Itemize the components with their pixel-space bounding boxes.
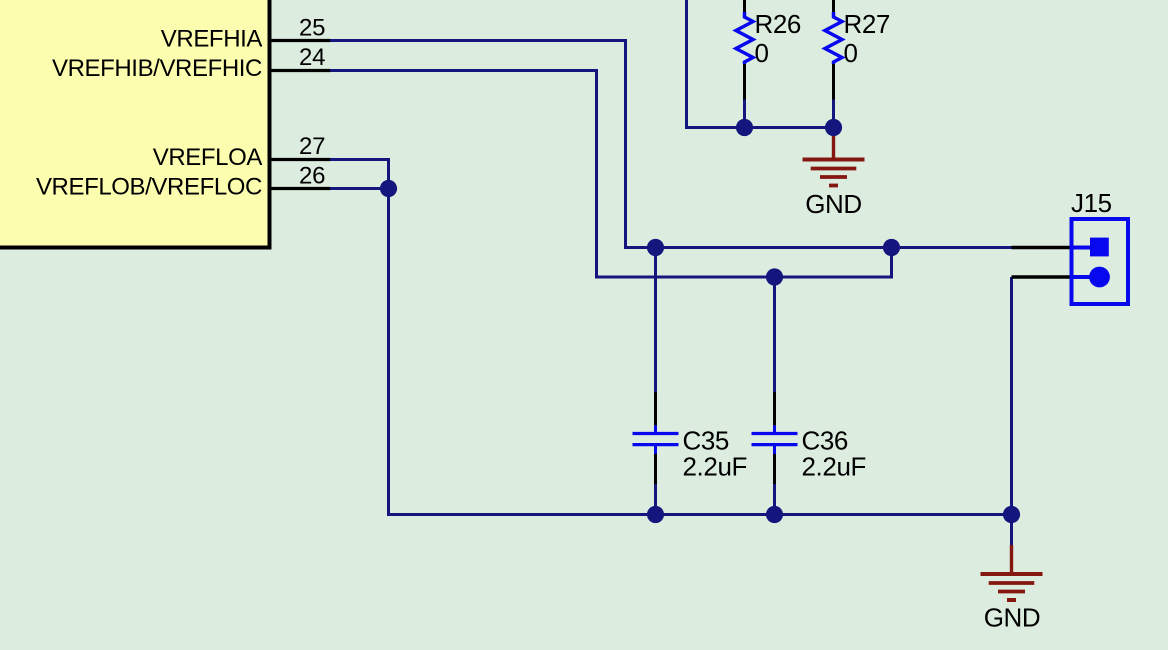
junction: VREFHI join: [883, 239, 900, 256]
pin 25 stub: [270, 39, 331, 42]
wire C35 branch upper: [654, 248, 657, 393]
svg-text:GND: GND: [805, 189, 862, 219]
wire J15 pin2 down to ground rail: [1010, 277, 1013, 515]
wire from top to resistor bottoms: [687, 0, 834, 128]
svg-text:VREFHIA: VREFHIA: [161, 26, 263, 53]
junction: ground rail at GND: [1003, 506, 1020, 523]
svg-text:VREFHIB/VREFHIC: VREFHIB/VREFHIC: [52, 55, 262, 82]
wire C35 branch lower: [654, 484, 657, 515]
wire C36 branch upper: [773, 277, 776, 392]
svg-text:0: 0: [755, 38, 769, 68]
pin 27 stub: [270, 158, 331, 161]
pin 24 stub: [270, 69, 331, 72]
svg-text:25: 25: [299, 15, 325, 42]
wire stub from ground rail junction down to GND symbol: [1010, 515, 1013, 547]
svg-text:J15: J15: [1071, 188, 1112, 218]
svg-text:27: 27: [299, 133, 325, 160]
svg-text:VREFLOB/VREFLOC: VREFLOB/VREFLOC: [36, 174, 262, 201]
wire VREFHIB net: pin24 right, down, across, up to join: [330, 71, 892, 278]
svg-text:24: 24: [299, 44, 325, 71]
svg-text:2.2uF: 2.2uF: [683, 452, 748, 482]
junction: pin26/pin27 net: [380, 180, 397, 197]
IC U1 body (yellow, cropped top-left): [0, 0, 270, 248]
junction: C35 bottom: [647, 506, 664, 523]
capacitor C36: [752, 392, 798, 484]
wire VREFHIA net: pin25 right, down, across to J15 pin1: [330, 41, 1012, 248]
junction: R26 bottom: [736, 119, 753, 136]
junction: C36 branch: [766, 268, 783, 285]
svg-text:R26: R26: [755, 9, 802, 39]
svg-text:2.2uF: 2.2uF: [802, 452, 867, 482]
pin 26 stub: [270, 187, 331, 190]
ground symbol (top, under R27): [803, 130, 865, 186]
wire pin26 to junction: [330, 187, 389, 190]
svg-text:VREFLOA: VREFLOA: [153, 144, 263, 171]
junction: R27 bottom / GND: [825, 119, 842, 136]
junction: VREFHI at C35 branch: [647, 239, 664, 256]
svg-text:0: 0: [844, 38, 858, 68]
resistor R26: [736, 0, 753, 128]
svg-text:GND: GND: [984, 603, 1041, 633]
junction: C36 bottom: [766, 506, 783, 523]
connector J15: [1012, 219, 1129, 304]
ground symbol (bottom right): [981, 545, 1043, 600]
capacitor C35: [633, 392, 679, 484]
svg-text:R27: R27: [844, 9, 891, 39]
wire VREFLO net: pin27 right, down, across bottom: [330, 160, 1012, 515]
svg-text:26: 26: [299, 163, 325, 190]
wire C36 branch lower: [773, 484, 776, 515]
resistor R27: [825, 0, 842, 128]
